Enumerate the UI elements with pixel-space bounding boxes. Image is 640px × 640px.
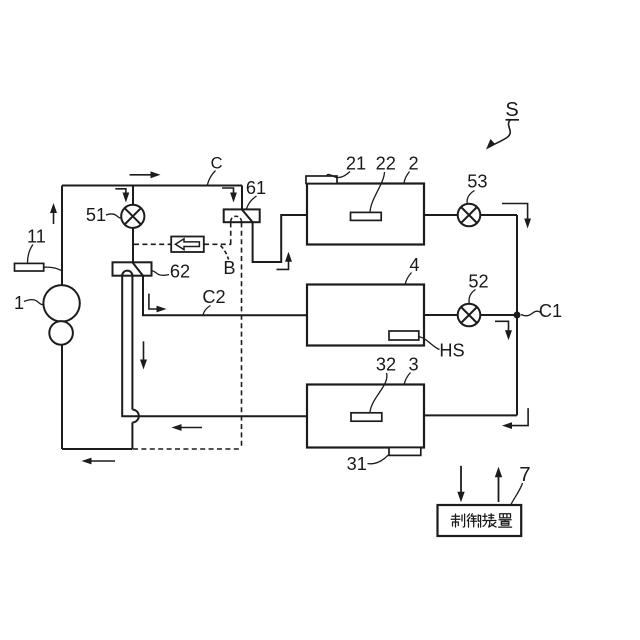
- leader 7: [511, 483, 523, 505]
- svg-text:HS: HS: [439, 341, 464, 361]
- svg-text:1: 1: [14, 293, 24, 313]
- valve 51: [121, 205, 144, 228]
- leader 2: [404, 172, 410, 184]
- leader 21: [327, 172, 350, 178]
- kanji 置: [499, 514, 512, 527]
- wire right riser vertical: [516, 215, 518, 415]
- svg-text:53: 53: [467, 171, 487, 191]
- dashed bypass B from valve51 line to indicator box: [134, 243, 171, 245]
- leader C1: [521, 311, 541, 316]
- accumulator 11 rectangle: [15, 263, 44, 271]
- three-way valve 61 body: [224, 209, 260, 222]
- flow indicator box with left block arrow (passage B): [171, 237, 204, 253]
- leader 22: [370, 172, 385, 212]
- leader 31: [368, 455, 389, 464]
- tab 21 on box 2: [306, 176, 337, 184]
- svg-text:11: 11: [27, 227, 46, 247]
- leader C2: [203, 306, 211, 316]
- svg-text:51: 51: [86, 205, 106, 225]
- wire valve 53 to right riser: [480, 214, 517, 216]
- sensor HS inside box 4: [389, 331, 419, 340]
- heat exchanger box 3: [307, 385, 424, 448]
- wire into valve 61 top: [241, 186, 243, 210]
- leader HS: [419, 337, 440, 350]
- valve 52: [458, 304, 481, 327]
- wire valve 52 to node C1: [480, 314, 517, 316]
- kanji 御: [467, 514, 480, 527]
- svg-text:3: 3: [408, 355, 418, 375]
- valve 53: [458, 204, 481, 227]
- svg-text:32: 32: [376, 355, 396, 375]
- compressor 1 big circle: [43, 285, 79, 321]
- svg-text:21: 21: [346, 154, 366, 174]
- leader 61: [247, 196, 257, 209]
- wire compressor outlet down to suction bottom: [61, 345, 63, 449]
- kanji 制御装置 drawn as strokes: [451, 514, 511, 527]
- wire box3 right to riser: [424, 414, 517, 416]
- arrow down beside suction pipe: [143, 341, 145, 366]
- wire hop over crossing: [131, 422, 133, 449]
- arrow squiggle from S: [489, 119, 511, 147]
- arrow bent down at top right: [502, 204, 528, 226]
- dashed bypass vertical from 61 to bottom: [241, 222, 243, 449]
- svg-text:52: 52: [468, 272, 488, 292]
- arrow left under evaporator feed line: [175, 427, 202, 429]
- leader 11 component to pipe: [44, 267, 62, 271]
- heat exchanger box 4: [307, 285, 424, 346]
- wire box4 right to valve 52: [424, 314, 458, 316]
- control device box 7: [438, 505, 522, 536]
- arrowheads: [50, 139, 531, 502]
- svg-text:S: S: [505, 99, 518, 121]
- sensor 32 inside box 3: [351, 413, 382, 421]
- arrow bent right at C2 start: [149, 294, 163, 309]
- leader C: [208, 171, 216, 185]
- wire pipe 62 down to suction with hop: [131, 276, 133, 410]
- svg-text:B: B: [223, 258, 235, 278]
- leader 11: [28, 245, 34, 263]
- leader 4: [405, 273, 411, 285]
- wire C2 line from 62 to box 4: [143, 276, 307, 316]
- tab 31 under box 3: [389, 448, 421, 456]
- svg-text:2: 2: [408, 154, 418, 174]
- wire discharge top line C: [62, 185, 242, 187]
- kanji 装: [483, 514, 496, 527]
- leader 1: [24, 300, 43, 305]
- leader label B dashed: [221, 246, 229, 260]
- wire pipe 62 to evaporator 3 with corner: [122, 276, 307, 417]
- arrow right on top line: [130, 174, 157, 176]
- arrow bent down before valve 61: [222, 188, 234, 199]
- heat exchanger box 2: [307, 184, 424, 245]
- svg-text:31: 31: [347, 454, 367, 474]
- dashed stub from valve 61 bottom-left: [230, 222, 232, 244]
- three-way valve 62 body: [113, 262, 152, 275]
- sensor 22 inside box 2: [351, 212, 382, 220]
- arrow up left riser: [53, 206, 55, 224]
- kanji 制: [451, 514, 464, 527]
- leader 3: [404, 373, 410, 385]
- wire box2 right to valve 53: [424, 214, 458, 216]
- arrow bent down below node C1: [495, 321, 509, 337]
- hop of suction pipe over evaporator feed line: [132, 410, 138, 423]
- arch passage inside 62: [122, 271, 132, 276]
- flow arrows: [54, 119, 529, 502]
- underline S: [506, 119, 520, 121]
- arrow up out of control device: [498, 470, 500, 502]
- wire left riser from compressor to top line: [61, 186, 63, 286]
- svg-text:4: 4: [409, 255, 419, 275]
- leader 52: [469, 290, 475, 304]
- svg-text:C1: C1: [539, 301, 562, 321]
- leader 32: [370, 373, 387, 413]
- svg-text:C: C: [211, 154, 223, 172]
- svg-text:C2: C2: [202, 287, 225, 307]
- arrow bent down before valve 51: [115, 189, 126, 199]
- dashed arch inside valve 61: [231, 216, 242, 221]
- leader 51: [106, 214, 121, 218]
- arrow bent left at bottom right: [506, 408, 529, 426]
- svg-text:7: 7: [519, 463, 530, 486]
- svg-text:61: 61: [246, 178, 266, 198]
- dashed arch inside valve 61: [231, 216, 242, 221]
- arrow down into control device: [460, 466, 462, 499]
- leader 53: [467, 191, 474, 204]
- dashed bypass bottom horizontal: [133, 448, 242, 450]
- svg-text:22: 22: [376, 154, 396, 174]
- svg-text:62: 62: [170, 262, 190, 282]
- leader 62: [152, 271, 169, 275]
- wire suction bottom horizontal: [62, 448, 132, 450]
- wire from valve 61 to box 2 zigzag: [253, 215, 307, 262]
- dashed bypass B from indicator box to junction: [204, 243, 231, 245]
- arrow bent up after valve 61: [277, 255, 289, 269]
- wire branch through valve 51: [132, 186, 134, 263]
- leader lines for labels: [24, 120, 541, 505]
- compressor 1 small circle: [49, 321, 73, 345]
- arrow left under suction bottom: [85, 460, 115, 462]
- node C1 junction dot: [514, 312, 521, 319]
